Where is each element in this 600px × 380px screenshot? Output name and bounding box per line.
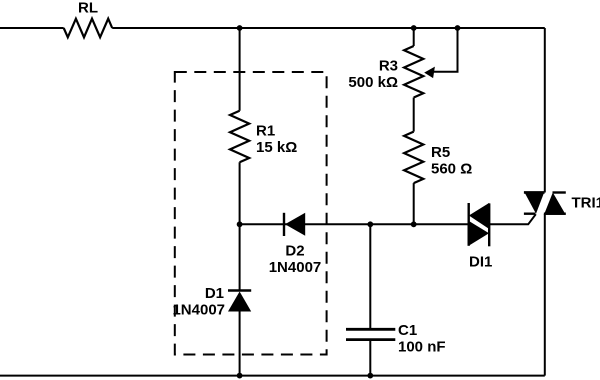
svg-text:R1: R1: [256, 123, 275, 140]
wire top main: [112, 27, 545, 29]
svg-text:D2: D2: [285, 243, 304, 260]
wire R1 branch top: [239, 28, 241, 111]
wire top-left segment: [0, 27, 64, 29]
node dot mid R1: [237, 221, 243, 227]
node dot bottom D1: [237, 373, 243, 379]
node dot top wiper: [455, 25, 461, 31]
svg-text:TRI1: TRI1: [572, 195, 600, 212]
wire diac to gate: [489, 214, 536, 224]
svg-text:15 kΩ: 15 kΩ: [256, 139, 297, 156]
node dot top R3: [411, 25, 417, 31]
node dot bottom C1: [367, 373, 373, 379]
svg-text:R3: R3: [379, 58, 398, 75]
svg-text:RL: RL: [78, 0, 98, 17]
wire R1 to node: [239, 162, 241, 289]
capacitor C1: [346, 224, 395, 375]
resistor RL: [64, 19, 112, 38]
R3 wiper wire: [434, 28, 458, 72]
potentiometer R3: [404, 46, 423, 98]
node dot mid C1: [367, 221, 373, 227]
dashed box: [175, 72, 327, 355]
svg-text:1N4007: 1N4007: [269, 259, 322, 276]
diode D2: [284, 213, 305, 236]
wire R3 top: [413, 28, 415, 46]
svg-text:C1: C1: [398, 322, 417, 339]
svg-text:560 Ω: 560 Ω: [431, 161, 472, 178]
resistor R5: [404, 132, 423, 184]
svg-text:R5: R5: [431, 144, 450, 161]
svg-text:500 kΩ: 500 kΩ: [348, 74, 398, 91]
svg-text:D1: D1: [205, 285, 224, 302]
triac TRI1: [524, 191, 566, 215]
node dot top R1: [237, 25, 243, 31]
wire node horizontal: [240, 223, 469, 225]
node dot mid R5: [411, 221, 417, 227]
wire R3 to R5: [413, 98, 415, 132]
svg-text:1N4007: 1N4007: [172, 302, 225, 319]
svg-text:DI1: DI1: [469, 254, 492, 271]
wire R5 to node: [413, 183, 415, 224]
wire bottom: [0, 375, 545, 377]
wire right lower: [544, 214, 546, 376]
wire right upper: [544, 28, 546, 193]
wire D1 to bottom: [239, 312, 241, 376]
diode D1: [228, 291, 251, 312]
resistor R1: [230, 111, 249, 163]
diac DI1: [469, 203, 490, 246]
svg-text:100 nF: 100 nF: [398, 339, 446, 356]
R3 wiper arrow: [424, 67, 435, 79]
